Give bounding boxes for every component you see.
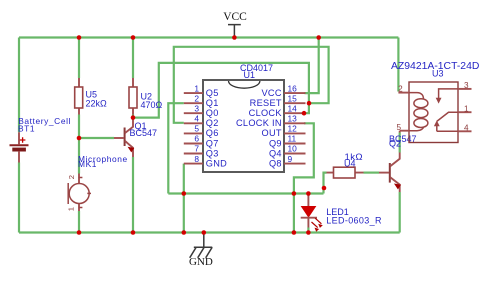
- junction GND rail / pin8: [182, 230, 187, 235]
- wire Q2 collector to relay pin5: [399, 133, 401, 153]
- svg-text:7: 7: [194, 144, 199, 154]
- svg-text:Q1: Q1: [206, 98, 219, 108]
- wire U2 top: [132, 38, 134, 79]
- wire U5 bottom to node: [78, 115, 80, 139]
- svg-text:14: 14: [288, 103, 298, 113]
- svg-text:5: 5: [396, 123, 401, 132]
- relay pin 5: [396, 123, 409, 133]
- svg-text:MK1: MK1: [78, 159, 97, 169]
- svg-text:470Ω: 470Ω: [141, 100, 163, 110]
- IC right pins 16-9: [236, 83, 305, 168]
- svg-text:Q6: Q6: [206, 128, 219, 138]
- wire Q1 emitter to rail: [132, 157, 134, 233]
- microphone MK1: [67, 154, 128, 212]
- svg-text:22kΩ: 22kΩ: [86, 98, 108, 108]
- resistor U4: [327, 152, 364, 178]
- IC left pins 1-8: [184, 83, 227, 168]
- svg-text:2: 2: [398, 85, 403, 94]
- svg-text:Q4: Q4: [269, 148, 282, 158]
- wire collector node to RESET pin15: [133, 63, 309, 118]
- wire node to Q1 base: [79, 137, 114, 139]
- junction GND rail / GND symbol: [202, 230, 207, 235]
- svg-text:3: 3: [194, 103, 199, 113]
- wire pin8 GND drop to rail: [183, 164, 185, 233]
- svg-text:BC547: BC547: [130, 128, 158, 138]
- svg-text:4: 4: [194, 114, 199, 124]
- svg-text:Q0: Q0: [206, 108, 219, 118]
- vcc symbol: [223, 11, 247, 38]
- svg-text:1: 1: [194, 83, 199, 93]
- junction GND rail / Q1 emitter: [131, 230, 136, 235]
- svg-text:U3: U3: [432, 68, 444, 78]
- svg-text:5: 5: [194, 124, 199, 134]
- svg-text:2: 2: [194, 93, 199, 103]
- IC U1 CD4017 body: [203, 63, 284, 172]
- relay switch arm and pin1 line: [437, 112, 458, 121]
- junction pin15 RESET: [307, 101, 312, 106]
- wire pin2 Q1 to wire A: [168, 103, 184, 193]
- svg-text:Q2: Q2: [206, 118, 219, 128]
- svg-text:8: 8: [194, 154, 199, 164]
- svg-text:15: 15: [288, 93, 298, 103]
- junction pin14 CLOCK: [302, 111, 307, 116]
- svg-text:1: 1: [67, 207, 76, 211]
- wire U5 top: [78, 38, 80, 79]
- resistor U5: [75, 78, 107, 115]
- svg-text:U1: U1: [244, 70, 256, 80]
- svg-text:Q3: Q3: [206, 148, 219, 158]
- wire rail drop to relay pin2: [397, 38, 399, 92]
- relay coil: [409, 93, 428, 131]
- svg-text:OUT: OUT: [262, 128, 282, 138]
- svg-text:11: 11: [288, 134, 297, 144]
- svg-text:VCC: VCC: [261, 88, 281, 98]
- junction GND rail / wire A drop: [292, 230, 297, 235]
- LED1: [301, 195, 382, 232]
- junction GND rail / LED cathode: [306, 230, 311, 235]
- relay pin 2: [398, 85, 409, 94]
- svg-text:CLOCK IN: CLOCK IN: [236, 118, 282, 128]
- wire left drop to battery: [18, 38, 20, 133]
- relay pin 3: [458, 81, 472, 90]
- svg-text:RESET: RESET: [250, 98, 282, 108]
- wire A horizontal: [168, 192, 323, 194]
- transistor Q1: [114, 119, 157, 158]
- junction VCC rail / U5: [77, 35, 82, 40]
- wire A riser to U4: [324, 173, 327, 194]
- svg-text:2: 2: [67, 175, 76, 179]
- junction U4 riser: [322, 186, 327, 191]
- wire bottom GND rail: [19, 231, 400, 233]
- svg-text:CLOCK: CLOCK: [249, 108, 283, 118]
- wire pin16 VCC to rail: [305, 38, 319, 94]
- wire U2 bottom to collector node: [132, 115, 134, 118]
- wire U4 to Q2 base: [364, 172, 380, 174]
- svg-text:LED-0603_R: LED-0603_R: [326, 215, 382, 225]
- wire pin13 CLOCK IN jog: [294, 123, 314, 193]
- svg-text:4: 4: [464, 123, 469, 132]
- wire node to microphone: [78, 138, 80, 174]
- svg-text:1: 1: [464, 104, 469, 113]
- wire LED cathode to rail: [307, 228, 309, 233]
- junction wire A / rail drop: [292, 191, 297, 196]
- junction wire A / LED anode: [306, 191, 311, 196]
- junction VCC rail / VCC symbol: [232, 35, 237, 40]
- wire pin15 to pin14 jog: [304, 103, 309, 113]
- svg-text:Q5: Q5: [206, 88, 219, 98]
- junction wire A / pin8 drop: [182, 191, 187, 196]
- relay pin 1: [458, 104, 472, 113]
- node battery / U5 / Q1 base: [77, 136, 82, 141]
- wire Q2 emitter to rail: [399, 192, 401, 233]
- svg-text:16: 16: [288, 83, 298, 93]
- svg-text:Q9: Q9: [269, 138, 282, 148]
- wire pin15 loop to pin4 Q2: [174, 47, 329, 123]
- transistor Q2: [379, 134, 417, 192]
- svg-text:6: 6: [194, 134, 199, 144]
- svg-text:10: 10: [288, 144, 298, 154]
- resistor U2: [129, 78, 163, 115]
- svg-text:Q7: Q7: [206, 138, 219, 148]
- relay pin 4: [458, 123, 472, 132]
- junction VCC rail / pin16: [316, 35, 321, 40]
- gnd symbol: [189, 233, 213, 268]
- svg-text:12: 12: [288, 124, 298, 134]
- wire battery bottom to rail: [18, 163, 20, 233]
- relay actuator arrow: [436, 89, 458, 104]
- relay U3 box: [391, 61, 479, 142]
- svg-text:GND: GND: [206, 158, 227, 168]
- svg-text:BT1: BT1: [18, 123, 35, 133]
- svg-text:GND: GND: [189, 256, 213, 268]
- svg-text:13: 13: [288, 114, 298, 124]
- junction GND rail / microphone: [77, 230, 82, 235]
- svg-text:9: 9: [288, 154, 293, 164]
- svg-text:U4: U4: [344, 158, 356, 168]
- wire microphone bottom to rail: [78, 211, 80, 233]
- wire top VCC rail: [19, 36, 398, 38]
- relay NO arrow: [434, 120, 458, 131]
- battery BT1: [10, 116, 72, 163]
- junction VCC rail / U2: [131, 35, 136, 40]
- node U2 / Q1 collector: [131, 115, 136, 120]
- svg-text:Q8: Q8: [269, 158, 282, 168]
- svg-text:3: 3: [464, 81, 469, 90]
- wire drop wireA to rail: [293, 194, 295, 233]
- svg-text:Q2: Q2: [389, 139, 401, 149]
- svg-text:VCC: VCC: [223, 11, 247, 23]
